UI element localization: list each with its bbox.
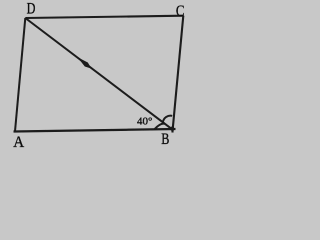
svg-text:D: D	[27, 1, 36, 18]
side AD (left)	[15, 18, 25, 131]
side DC (top)	[25, 16, 183, 18]
diagonal DB	[25, 18, 172, 129]
arrow mark on diagonal DB	[78, 57, 92, 68]
ink blob at vertex B junction	[170, 127, 174, 131]
angle arc DBA at B	[154, 124, 164, 130]
svg-text:C: C	[176, 3, 185, 20]
svg-text:40°: 40°	[137, 115, 152, 127]
angle arc DBC at B	[163, 116, 172, 122]
svg-text:A: A	[13, 134, 24, 150]
side BC (right)	[172, 16, 183, 133]
side AB (bottom)	[14, 129, 176, 132]
svg-text:B: B	[161, 131, 169, 148]
